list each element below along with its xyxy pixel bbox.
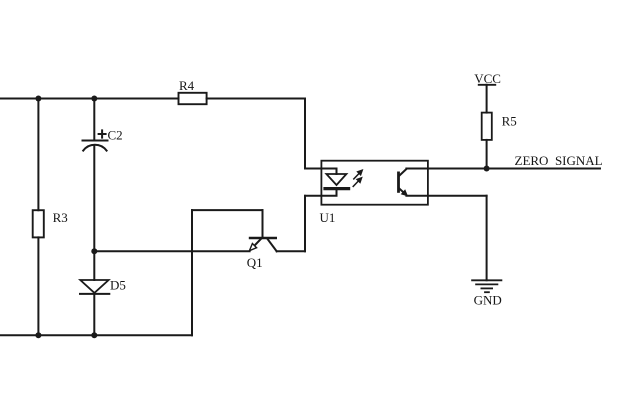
node junction zero signal <box>484 166 490 172</box>
svg-text:GND: GND <box>474 293 502 308</box>
node junction bottom rail at R3 <box>35 332 41 338</box>
U1 internal phototransistor <box>399 169 408 196</box>
wire bottom rail <box>0 334 192 336</box>
wire Q1 base top run <box>192 209 263 211</box>
wire down to ground <box>486 196 488 280</box>
svg-text:Q1: Q1 <box>247 255 263 270</box>
resistor R4 <box>179 93 207 104</box>
wire collector up to U1 pin2 <box>304 196 306 252</box>
node junction top rail at C2 <box>91 96 97 102</box>
wire Q1 base lead <box>262 210 264 237</box>
node junction top rail at R3 <box>35 96 41 102</box>
wire R5 to node <box>486 140 488 169</box>
capacitor C2 <box>83 130 108 150</box>
node junction C2/D5 emitter tap <box>91 248 97 254</box>
wire C2 to node <box>93 146 95 251</box>
power VCC bar <box>479 84 496 86</box>
U1 LED emission arrows <box>353 170 362 187</box>
wire VCC to R5 <box>486 85 488 113</box>
wire top rail right segment <box>207 98 305 100</box>
svg-text:ZERO SIGNAL: ZERO SIGNAL <box>515 153 603 168</box>
U1 internal LED <box>325 174 349 189</box>
resistor R5 <box>482 113 492 140</box>
vertical wire R3 branch <box>37 99 39 211</box>
wire from top rail down to U1 pin1 <box>304 99 306 169</box>
wire Q1 emitter to node <box>94 250 249 252</box>
svg-text:R5: R5 <box>502 114 517 129</box>
wire node to D5 <box>93 251 95 280</box>
wire into U1 LED cathode <box>305 190 337 196</box>
svg-text:C2: C2 <box>108 127 123 142</box>
op-amp U1 optocoupler box <box>321 161 428 205</box>
wire D5 to bottom rail <box>93 294 95 335</box>
node junction bottom rail at D5 <box>91 332 97 338</box>
resistor R3 <box>33 210 44 237</box>
wire Q1 collector run <box>277 250 305 252</box>
svg-text:D5: D5 <box>110 278 126 293</box>
wire top rail to C2 <box>93 99 95 141</box>
ground <box>472 280 501 292</box>
wire top rail left segment <box>0 98 179 100</box>
wire R3 to bottom rail <box>37 237 39 335</box>
wire into U1 LED anode <box>305 169 337 175</box>
transistor Q1 <box>249 238 276 251</box>
svg-text:R4: R4 <box>179 78 195 93</box>
wire U1 emitter out <box>406 195 486 197</box>
svg-text:R3: R3 <box>53 210 68 225</box>
svg-text:VCC: VCC <box>474 71 501 86</box>
wire bottom rail up to Q1 base loop <box>191 210 193 335</box>
diode D5 <box>80 280 109 294</box>
wire U1 collector out to zero signal rail <box>406 168 600 170</box>
svg-text:U1: U1 <box>320 210 336 225</box>
